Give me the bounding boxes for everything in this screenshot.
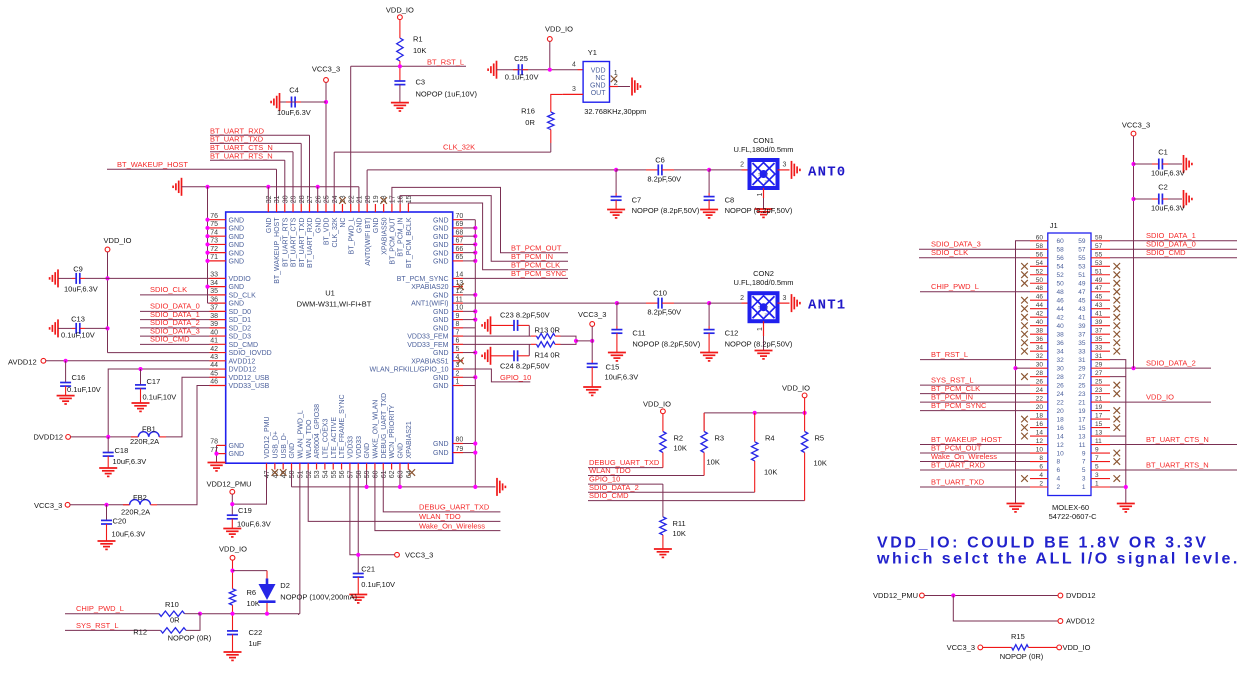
svg-text:SD_D2: SD_D2 <box>229 325 252 332</box>
svg-text:56: 56 <box>339 470 346 478</box>
svg-text:SD_CLK: SD_CLK <box>229 292 257 299</box>
svg-text:1uF: 1uF <box>249 639 262 648</box>
svg-text:40: 40 <box>1036 319 1044 326</box>
svg-text:J1: J1 <box>1050 221 1058 230</box>
svg-text:0R: 0R <box>170 616 180 625</box>
svg-text:C25: C25 <box>514 54 528 63</box>
svg-text:43: 43 <box>210 354 218 361</box>
svg-text:BT_UART_RTS_N: BT_UART_RTS_N <box>1146 460 1209 469</box>
svg-text:Wake_On_Wireless: Wake_On_Wireless <box>419 521 485 530</box>
svg-text:USB_D+: USB_D+ <box>272 431 279 458</box>
svg-text:41: 41 <box>210 338 218 345</box>
svg-text:C2: C2 <box>1158 183 1168 192</box>
svg-text:C19: C19 <box>238 506 252 515</box>
svg-text:46: 46 <box>210 379 218 386</box>
svg-text:49: 49 <box>1095 277 1103 284</box>
svg-text:16: 16 <box>1057 425 1065 432</box>
svg-text:75: 75 <box>210 221 218 228</box>
svg-text:3: 3 <box>1095 472 1099 479</box>
svg-text:GND: GND <box>229 217 245 224</box>
svg-text:10K: 10K <box>673 529 686 538</box>
svg-text:BT_PCM_SYNC: BT_PCM_SYNC <box>931 401 987 410</box>
svg-text:52: 52 <box>1036 268 1044 275</box>
svg-text:GND: GND <box>433 309 449 316</box>
svg-text:45: 45 <box>1078 297 1086 304</box>
svg-text:27: 27 <box>1078 374 1086 381</box>
svg-text:R1: R1 <box>413 35 423 44</box>
svg-text:XPABIAS20: XPABIAS20 <box>411 284 448 291</box>
svg-text:52: 52 <box>306 470 313 478</box>
svg-text:VDD_IO: VDD_IO <box>545 25 573 34</box>
svg-text:CLK_32K: CLK_32K <box>443 143 475 152</box>
svg-text:GND: GND <box>433 226 449 233</box>
svg-text:57: 57 <box>1078 246 1086 253</box>
svg-text:54722-0607-C: 54722-0607-C <box>1049 512 1098 521</box>
svg-text:47: 47 <box>1095 285 1103 292</box>
svg-text:R10: R10 <box>165 600 179 609</box>
svg-text:41: 41 <box>1095 311 1103 318</box>
svg-text:VCC3_3: VCC3_3 <box>34 501 62 510</box>
svg-text:7: 7 <box>1082 459 1086 466</box>
svg-text:BT_UART_RTS: BT_UART_RTS <box>282 217 289 267</box>
svg-text:59: 59 <box>1078 238 1086 245</box>
svg-text:27: 27 <box>307 195 314 203</box>
svg-text:38: 38 <box>1057 331 1065 338</box>
svg-text:GND: GND <box>266 218 273 234</box>
svg-text:10K: 10K <box>413 46 426 55</box>
svg-text:2: 2 <box>740 162 744 169</box>
svg-text:78: 78 <box>210 439 218 446</box>
svg-text:3: 3 <box>783 162 787 169</box>
svg-text:10uF,6.3V: 10uF,6.3V <box>112 529 146 538</box>
svg-text:XPABIAS50: XPABIAS50 <box>381 217 388 254</box>
svg-text:36: 36 <box>210 296 218 303</box>
svg-text:VCC3_3: VCC3_3 <box>1122 121 1150 130</box>
svg-text:32: 32 <box>1036 353 1044 360</box>
svg-text:60: 60 <box>1036 234 1044 241</box>
svg-text:BT_PWD_L: BT_PWD_L <box>348 217 355 254</box>
svg-text:NOPOP (1uF,10V): NOPOP (1uF,10V) <box>416 90 478 99</box>
svg-text:NOPOP (0R): NOPOP (0R) <box>1000 652 1044 661</box>
svg-text:65: 65 <box>456 254 464 261</box>
svg-text:47: 47 <box>264 470 271 478</box>
svg-text:1: 1 <box>757 193 764 197</box>
svg-text:C12: C12 <box>725 328 739 337</box>
svg-text:7: 7 <box>456 329 460 336</box>
svg-text:U1: U1 <box>325 289 335 298</box>
svg-text:R6: R6 <box>247 588 257 597</box>
svg-text:42: 42 <box>1057 314 1065 321</box>
svg-text:8.2pF,50V: 8.2pF,50V <box>647 308 681 317</box>
svg-text:GND: GND <box>590 83 606 90</box>
svg-text:BT_WAKEUP_HOST: BT_WAKEUP_HOST <box>117 160 188 169</box>
svg-text:34: 34 <box>1036 345 1044 352</box>
svg-text:14: 14 <box>1057 433 1065 440</box>
svg-text:R3: R3 <box>715 433 725 442</box>
svg-text:35: 35 <box>1078 340 1086 347</box>
svg-text:27: 27 <box>1095 370 1103 377</box>
svg-text:31: 31 <box>1095 353 1103 360</box>
svg-text:WLAN_TDO: WLAN_TDO <box>419 512 461 521</box>
svg-text:GND: GND <box>433 217 449 224</box>
svg-text:76: 76 <box>210 213 218 220</box>
svg-text:220R,2A: 220R,2A <box>130 437 159 446</box>
svg-text:Y1: Y1 <box>588 48 597 57</box>
svg-text:VDD33: VDD33 <box>356 436 363 459</box>
svg-text:20: 20 <box>365 195 372 203</box>
svg-text:11: 11 <box>456 296 463 303</box>
svg-text:79: 79 <box>456 446 464 453</box>
svg-text:57: 57 <box>348 470 355 478</box>
svg-text:R2: R2 <box>674 433 684 442</box>
svg-text:1: 1 <box>1095 481 1099 488</box>
svg-text:ANT1(WIFI): ANT1(WIFI) <box>411 301 448 308</box>
svg-text:59: 59 <box>364 470 371 478</box>
svg-text:21: 21 <box>1095 396 1103 403</box>
svg-text:24: 24 <box>1036 387 1044 394</box>
svg-text:8: 8 <box>1039 455 1043 462</box>
svg-text:C22: C22 <box>249 628 263 637</box>
svg-text:6: 6 <box>456 338 460 345</box>
svg-text:BT_VDD: BT_VDD <box>324 218 331 246</box>
svg-text:VDD_IO: COULD BE 1.8V OR 3.3V: VDD_IO: COULD BE 1.8V OR 3.3V <box>877 535 1208 552</box>
svg-text:15: 15 <box>406 195 413 203</box>
svg-text:0.1uF,10V: 0.1uF,10V <box>67 385 101 394</box>
svg-text:AR6004_GPIO38: AR6004_GPIO38 <box>314 404 321 459</box>
svg-text:VCC3_3: VCC3_3 <box>947 643 975 652</box>
svg-text:BT_WAKEUP_HOST: BT_WAKEUP_HOST <box>274 217 281 284</box>
svg-text:220R,2A: 220R,2A <box>121 507 150 516</box>
svg-text:SDIO_CMD: SDIO_CMD <box>150 335 190 344</box>
svg-text:GND: GND <box>229 250 245 257</box>
svg-text:29: 29 <box>1095 362 1103 369</box>
svg-text:XPABIAS21: XPABIAS21 <box>406 421 413 458</box>
svg-text:51: 51 <box>297 470 304 478</box>
svg-text:70: 70 <box>456 213 464 220</box>
svg-text:GND: GND <box>433 250 449 257</box>
svg-text:10uF,6.3V: 10uF,6.3V <box>113 457 147 466</box>
svg-text:10K: 10K <box>814 458 827 467</box>
svg-text:22: 22 <box>1036 396 1044 403</box>
svg-text:10: 10 <box>456 305 464 312</box>
svg-text:23: 23 <box>1095 387 1103 394</box>
svg-text:C17: C17 <box>147 377 161 386</box>
svg-text:9: 9 <box>1095 447 1099 454</box>
svg-text:10: 10 <box>1036 447 1044 454</box>
svg-text:1: 1 <box>456 379 460 386</box>
svg-text:52: 52 <box>1057 272 1065 279</box>
svg-text:VDDIO: VDDIO <box>229 276 252 283</box>
svg-text:50: 50 <box>1036 277 1044 284</box>
svg-text:44: 44 <box>1036 302 1044 309</box>
svg-text:C20: C20 <box>113 516 127 525</box>
svg-text:AVDD12: AVDD12 <box>8 357 37 366</box>
svg-text:FB2: FB2 <box>133 493 147 502</box>
svg-text:C18: C18 <box>115 446 129 455</box>
svg-text:GND: GND <box>433 317 449 324</box>
svg-text:VDD33: VDD33 <box>348 436 355 459</box>
svg-text:SD_D0: SD_D0 <box>229 309 252 316</box>
svg-text:45: 45 <box>210 370 218 377</box>
svg-text:GND: GND <box>229 242 245 249</box>
svg-text:NOPOP (100V,200mA): NOPOP (100V,200mA) <box>280 593 357 602</box>
svg-text:C4: C4 <box>289 86 299 95</box>
svg-text:17: 17 <box>390 195 397 203</box>
svg-text:GND: GND <box>433 441 449 448</box>
svg-text:R12: R12 <box>133 627 147 636</box>
svg-text:54: 54 <box>1057 263 1065 270</box>
svg-text:R14 0R: R14 0R <box>535 350 561 359</box>
svg-text:42: 42 <box>210 346 218 353</box>
svg-text:55: 55 <box>1095 251 1103 258</box>
svg-text:26: 26 <box>1036 379 1044 386</box>
svg-text:BT_UART_CTS: BT_UART_CTS <box>291 217 298 267</box>
svg-text:CON2: CON2 <box>753 269 774 278</box>
svg-text:VDD_IO: VDD_IO <box>643 399 671 408</box>
svg-text:C13: C13 <box>71 314 85 323</box>
svg-text:30: 30 <box>1036 362 1044 369</box>
svg-text:NC: NC <box>340 218 347 228</box>
svg-text:18: 18 <box>1036 413 1044 420</box>
svg-text:10: 10 <box>1057 450 1065 457</box>
svg-text:36: 36 <box>1036 336 1044 343</box>
svg-text:10uF,6.3V: 10uF,6.3V <box>64 284 98 293</box>
svg-text:4: 4 <box>1039 472 1043 479</box>
svg-text:50: 50 <box>289 470 296 478</box>
svg-text:74: 74 <box>210 229 218 236</box>
svg-text:5: 5 <box>1082 467 1086 474</box>
svg-text:C16: C16 <box>72 373 86 382</box>
svg-text:10uF,6.3V: 10uF,6.3V <box>277 108 311 117</box>
svg-text:VDD_IO: VDD_IO <box>386 6 414 15</box>
svg-text:55: 55 <box>1078 255 1086 262</box>
svg-text:CLK_32K: CLK_32K <box>332 217 339 247</box>
svg-text:40: 40 <box>210 329 218 336</box>
svg-text:GND: GND <box>433 350 449 357</box>
svg-text:AVDD12: AVDD12 <box>229 358 256 365</box>
svg-text:R15: R15 <box>1011 632 1025 641</box>
svg-text:58: 58 <box>1057 246 1065 253</box>
svg-text:66: 66 <box>456 246 464 253</box>
svg-text:8: 8 <box>1057 459 1061 466</box>
svg-text:MOLEX-60: MOLEX-60 <box>1052 503 1089 512</box>
svg-text:38: 38 <box>1036 328 1044 335</box>
svg-text:38: 38 <box>210 313 218 320</box>
svg-text:20: 20 <box>1057 408 1065 415</box>
svg-text:BT_UART_RXD: BT_UART_RXD <box>931 460 986 469</box>
svg-text:72: 72 <box>210 246 218 253</box>
svg-text:SDIO_IOVDD: SDIO_IOVDD <box>229 350 272 357</box>
svg-text:NOPOP (8.2pF,50V): NOPOP (8.2pF,50V) <box>632 206 700 215</box>
svg-text:4: 4 <box>572 61 576 68</box>
svg-text:47: 47 <box>1078 289 1086 296</box>
svg-text:WLAN_TDO: WLAN_TDO <box>306 419 313 458</box>
svg-text:5: 5 <box>456 346 460 353</box>
svg-text:C24 8.2pF,50V: C24 8.2pF,50V <box>500 362 550 371</box>
svg-text:41: 41 <box>1078 314 1086 321</box>
svg-text:0.1uF,10V: 0.1uF,10V <box>505 73 539 82</box>
svg-text:GND: GND <box>229 234 245 241</box>
svg-text:GND: GND <box>229 259 245 266</box>
svg-text:LTE_ACTIVE: LTE_ACTIVE <box>331 417 338 459</box>
svg-text:59: 59 <box>1095 234 1103 241</box>
svg-text:33: 33 <box>1095 345 1103 352</box>
svg-text:63: 63 <box>398 470 405 478</box>
svg-text:26: 26 <box>315 195 322 203</box>
svg-text:61: 61 <box>381 470 388 478</box>
svg-text:C9: C9 <box>73 264 83 273</box>
svg-text:13: 13 <box>1095 430 1103 437</box>
svg-text:BT_PCM_IN: BT_PCM_IN <box>398 218 405 257</box>
svg-text:1: 1 <box>757 327 764 331</box>
svg-text:GND: GND <box>229 284 245 291</box>
svg-text:71: 71 <box>210 254 218 261</box>
svg-text:11: 11 <box>1095 438 1102 445</box>
svg-text:57: 57 <box>1095 243 1103 250</box>
svg-text:LTE_COEX3: LTE_COEX3 <box>322 418 329 458</box>
svg-text:D2: D2 <box>280 581 290 590</box>
svg-text:37: 37 <box>1078 331 1086 338</box>
svg-text:6: 6 <box>1039 464 1043 471</box>
svg-text:SD_D1: SD_D1 <box>229 317 252 324</box>
svg-text:GND: GND <box>364 443 371 459</box>
svg-text:37: 37 <box>1095 328 1103 335</box>
svg-text:CHIP_PWD_L: CHIP_PWD_L <box>931 282 979 291</box>
svg-text:31: 31 <box>274 195 281 203</box>
svg-text:SDIO_CLK: SDIO_CLK <box>931 248 968 257</box>
svg-text:51: 51 <box>1095 268 1103 275</box>
svg-text:11: 11 <box>1079 442 1086 449</box>
svg-text:LTE_FRAME_SYNC: LTE_FRAME_SYNC <box>339 394 346 458</box>
svg-text:29: 29 <box>1078 365 1086 372</box>
svg-text:7: 7 <box>1095 455 1099 462</box>
svg-text:GND: GND <box>229 301 245 308</box>
svg-text:2: 2 <box>456 370 460 377</box>
svg-text:5: 5 <box>1095 464 1099 471</box>
svg-text:58: 58 <box>356 470 363 478</box>
svg-text:GND: GND <box>433 242 449 249</box>
svg-text:69: 69 <box>456 221 464 228</box>
svg-text:BT_UART_CTS_N: BT_UART_CTS_N <box>1146 435 1209 444</box>
svg-text:USB_D-: USB_D- <box>281 432 288 458</box>
svg-text:GND: GND <box>315 218 322 234</box>
svg-text:NOPOP (8.2pF,50V): NOPOP (8.2pF,50V) <box>725 339 793 348</box>
svg-text:62: 62 <box>389 470 396 478</box>
svg-text:10uF,6.3V: 10uF,6.3V <box>1151 169 1185 178</box>
svg-text:33: 33 <box>210 272 218 279</box>
svg-text:32: 32 <box>1057 357 1065 364</box>
svg-text:GND: GND <box>289 443 296 459</box>
svg-text:GPIO_10: GPIO_10 <box>500 373 531 382</box>
svg-text:SDIO_CLK: SDIO_CLK <box>150 285 187 294</box>
svg-text:46: 46 <box>1036 294 1044 301</box>
svg-text:34: 34 <box>210 280 218 287</box>
svg-text:48: 48 <box>1036 285 1044 292</box>
svg-text:10uF,6.3V: 10uF,6.3V <box>237 520 271 529</box>
svg-text:19: 19 <box>1095 404 1103 411</box>
svg-text:25: 25 <box>1095 379 1103 386</box>
svg-text:DVDD12: DVDD12 <box>34 433 64 442</box>
svg-text:14: 14 <box>1036 430 1044 437</box>
svg-text:17: 17 <box>1095 413 1103 420</box>
svg-text:39: 39 <box>210 321 218 328</box>
svg-text:53: 53 <box>1078 263 1086 270</box>
svg-text:GND: GND <box>433 375 449 382</box>
svg-text:3: 3 <box>572 86 576 93</box>
svg-text:R11: R11 <box>673 519 686 528</box>
svg-text:BT_PCM_BCLK: BT_PCM_BCLK <box>406 217 413 268</box>
svg-text:73: 73 <box>210 238 218 245</box>
svg-text:10uF,6.3V: 10uF,6.3V <box>1151 204 1185 213</box>
svg-text:16: 16 <box>1036 421 1044 428</box>
svg-text:25: 25 <box>324 195 331 203</box>
svg-text:C10: C10 <box>653 289 667 298</box>
svg-text:GND: GND <box>433 325 449 332</box>
svg-text:8: 8 <box>456 321 460 328</box>
svg-text:6: 6 <box>1057 467 1061 474</box>
svg-text:VCC3_3: VCC3_3 <box>578 310 606 319</box>
svg-text:10K: 10K <box>674 443 687 452</box>
svg-text:0.1uF,10V: 0.1uF,10V <box>61 330 95 339</box>
svg-text:2: 2 <box>1057 484 1061 491</box>
svg-text:53: 53 <box>314 470 321 478</box>
svg-text:C1: C1 <box>1158 148 1168 157</box>
svg-text:C21: C21 <box>361 565 375 574</box>
svg-text:10K: 10K <box>707 457 720 466</box>
svg-text:32: 32 <box>266 195 273 203</box>
svg-text:42: 42 <box>1036 311 1044 318</box>
svg-text:C6: C6 <box>655 155 665 164</box>
svg-text:20: 20 <box>1036 404 1044 411</box>
svg-text:SDIO_DATA_2: SDIO_DATA_2 <box>1146 359 1196 368</box>
svg-text:BT_UART_RTS_N: BT_UART_RTS_N <box>210 151 273 160</box>
svg-text:DEBUG_UART_TXD: DEBUG_UART_TXD <box>381 393 388 459</box>
svg-text:VDD_IO: VDD_IO <box>782 383 810 392</box>
svg-text:55: 55 <box>331 470 338 478</box>
svg-text:OUT: OUT <box>591 90 607 97</box>
svg-text:43: 43 <box>1095 302 1103 309</box>
svg-text:0.1uF,10V: 0.1uF,10V <box>143 392 177 401</box>
svg-text:68: 68 <box>456 229 464 236</box>
svg-text:VDD12_PMU: VDD12_PMU <box>873 591 918 600</box>
svg-text:18: 18 <box>1057 416 1065 423</box>
svg-text:58: 58 <box>1036 243 1044 250</box>
svg-text:30: 30 <box>1057 365 1065 372</box>
svg-text:14: 14 <box>456 272 464 279</box>
svg-text:C3: C3 <box>416 78 426 87</box>
svg-text:37: 37 <box>210 305 218 312</box>
svg-text:GND: GND <box>229 451 245 458</box>
svg-text:2: 2 <box>1039 481 1043 488</box>
svg-text:40: 40 <box>1057 323 1065 330</box>
svg-text:25: 25 <box>1078 382 1086 389</box>
svg-text:46: 46 <box>1057 297 1065 304</box>
svg-text:WAKE_ON_WLAN: WAKE_ON_WLAN <box>373 400 380 459</box>
svg-text:VDD_IO: VDD_IO <box>1063 643 1091 652</box>
svg-text:SD_CMD: SD_CMD <box>229 342 259 349</box>
svg-text:36: 36 <box>1057 340 1065 347</box>
svg-text:R4: R4 <box>765 433 775 442</box>
svg-text:39: 39 <box>1078 323 1086 330</box>
svg-text:U.FL,180d/0.5mm: U.FL,180d/0.5mm <box>733 145 793 154</box>
svg-text:DVDD12: DVDD12 <box>1066 591 1096 600</box>
svg-text:16: 16 <box>398 195 405 203</box>
svg-text:NC: NC <box>595 75 605 82</box>
svg-text:39: 39 <box>1095 319 1103 326</box>
svg-text:ANT1: ANT1 <box>808 298 846 314</box>
svg-text:SYS_RST_L: SYS_RST_L <box>76 621 119 630</box>
svg-text:15: 15 <box>1095 421 1103 428</box>
